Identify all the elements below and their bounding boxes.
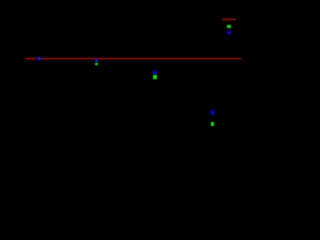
data point 4: green square [211, 122, 215, 126]
data point 2: green square lower part [95, 63, 98, 65]
data point 2: green center [96, 60, 97, 61]
legend: green square sample [227, 25, 231, 29]
legend: red line sample [222, 19, 236, 20]
data point 2: blue square [95, 59, 99, 62]
data point 1: blue square [37, 57, 41, 61]
data point 3: green square [153, 75, 157, 79]
legend: blue square sample [227, 31, 231, 35]
red fit line [25, 58, 241, 59]
data point 4: blue square [211, 110, 215, 115]
data point 3: blue square [153, 71, 157, 75]
data point 1: green center [39, 58, 40, 59]
